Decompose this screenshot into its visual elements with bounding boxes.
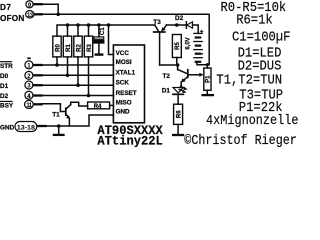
wire STR/MOSI line: [42, 64, 114, 66]
svg-text:6,0V: 6,0V: [186, 37, 192, 49]
wire BSY to T1 base: [42, 104, 66, 112]
pin 9 stub: [34, 3, 41, 5]
pin 1 stub: [34, 64, 42, 66]
wire T2 emitter to D1: [180, 82, 182, 88]
wire D0/XTAL1 line: [42, 74, 114, 76]
transistor T1: [52, 105, 70, 120]
battery minus tick: [201, 53, 204, 54]
svg-text:BSY: BSY: [0, 103, 14, 110]
ground symbol under P1: [203, 94, 213, 96]
wire D1/SCK line: [42, 84, 114, 86]
transistor T3: [153, 19, 166, 32]
wire T3 emitter / D2 cathode line: [166, 24, 186, 26]
pin label BSY with overline: [0, 101, 14, 109]
wire rail B (VCC rail): [57, 25, 155, 36]
svg-text:XTAL1: XTAL1: [116, 69, 136, 76]
pin 13 connector circle: [26, 11, 34, 19]
wire battery minus to P1 top / rail A: [197, 62, 209, 65]
node dot T2 collector: [176, 63, 180, 67]
pin label STR with overline: [0, 62, 13, 70]
pin 1 connector circle: [25, 61, 33, 70]
wire pin9 to rail A: [42, 4, 59, 14]
svg-text:MOSI: MOSI: [116, 59, 132, 66]
svg-text:GND: GND: [0, 125, 15, 132]
GND stub: [38, 125, 46, 127]
svg-text:+: +: [200, 29, 204, 36]
wire R5 bottom to node: [176, 58, 178, 66]
node dot R2 on SCK line: [76, 83, 80, 87]
pin 2 stub: [34, 74, 42, 76]
node dot R0 on MOSI line: [55, 63, 59, 67]
svg-text:T1,T2=TUN: T1,T2=TUN: [216, 73, 282, 89]
pin 3 connector circle: [25, 81, 33, 90]
pin 4 stub: [34, 94, 42, 96]
node dot R1 top: [66, 23, 70, 27]
svg-text:STR: STR: [0, 63, 13, 70]
wire T1 emitter to ground rail: [68, 118, 70, 126]
node dot P1 top: [206, 63, 209, 66]
node dot R3 top: [87, 23, 91, 27]
transistor T2: [163, 65, 188, 83]
svg-text:T1: T1: [52, 112, 60, 119]
wire T3 base down to node: [159, 32, 161, 65]
pin 11 stub: [34, 103, 41, 105]
node dot C1 top: [97, 23, 101, 27]
svg-text:13-18: 13-18: [17, 125, 36, 131]
node dot VCC drop: [107, 23, 111, 27]
svg-text:4xMignonzelle: 4xMignonzelle: [206, 113, 299, 129]
svg-text:R6: R6: [177, 110, 183, 118]
svg-text:R6=1k: R6=1k: [236, 12, 273, 28]
pin 3 stub: [34, 84, 42, 86]
svg-text:©Christof Rieger: ©Christof Rieger: [184, 133, 296, 149]
svg-text:R0: R0: [55, 44, 61, 52]
potentiometer P1: [204, 68, 212, 90]
svg-text:D1: D1: [162, 88, 171, 95]
stray mark: [27, 57, 30, 59]
ground bar under C1: [95, 53, 104, 55]
wire ground rail to IC GND pin: [46, 115, 114, 126]
wire node horizontal T3 base / T2 collector: [160, 64, 178, 66]
node dot ground symbol: [57, 124, 61, 128]
svg-text:R5: R5: [175, 42, 181, 50]
svg-text:D1: D1: [0, 83, 9, 90]
diode D1 LED: [162, 86, 188, 94]
capacitor C1: [94, 25, 106, 53]
svg-text:MISO: MISO: [116, 99, 132, 106]
svg-text:R2: R2: [76, 44, 82, 52]
svg-text:ATtiny22L: ATtiny22L: [97, 134, 163, 149]
svg-text:SCK: SCK: [116, 79, 130, 86]
ground symbol under R6: [173, 124, 183, 135]
svg-text:C1: C1: [100, 27, 106, 35]
resistor R3: [84, 25, 93, 96]
svg-text:D0: D0: [0, 73, 9, 80]
node dot R1 on XTAL1 line: [66, 74, 70, 78]
pin 11 connector circle: [25, 100, 34, 109]
wire D2 anode to battery plus: [193, 25, 199, 33]
svg-text:T2: T2: [163, 73, 171, 80]
svg-text:VCC: VCC: [116, 50, 130, 57]
svg-text:OFON: OFON: [0, 14, 24, 23]
node dot R3 on RESET line: [87, 94, 91, 98]
node junction pin9/pin13: [56, 13, 60, 17]
wire R4 to IC MISO pin: [110, 104, 114, 106]
wire P1 top: [206, 65, 208, 68]
pin 13 stub: [35, 13, 41, 15]
resistor R6: [174, 104, 183, 124]
pins 13-18 connector oval: [15, 122, 37, 132]
svg-text:GND: GND: [116, 109, 130, 116]
resistor R4: [88, 102, 110, 110]
svg-text:D2: D2: [0, 93, 9, 100]
node dot R5 top: [175, 23, 179, 27]
wire T1 collector to R4: [71, 102, 88, 106]
svg-text:P1: P1: [206, 75, 212, 83]
svg-text:R3: R3: [87, 44, 93, 52]
resistor R2: [74, 25, 83, 85]
wire VCC drop to IC VCC pin: [109, 25, 114, 55]
wire D1 to R6: [177, 94, 179, 104]
resistor R0: [53, 36, 62, 65]
pin 2 connector circle: [25, 71, 33, 80]
wire rail A (OFON/D7 line across top, down right side): [42, 14, 210, 64]
svg-text:D2: D2: [175, 15, 184, 22]
battery B1 4x cells: [194, 33, 202, 61]
diode D2: [175, 15, 193, 29]
svg-text:D7: D7: [0, 3, 11, 12]
IC U1 AT90S/ATtiny: [113, 45, 144, 123]
svg-text:C1=100µF: C1=100µF: [232, 30, 290, 46]
svg-text:R4: R4: [94, 104, 102, 110]
pin 9 connector circle: [26, 1, 33, 9]
svg-text:R1: R1: [66, 44, 72, 52]
resistor R1: [63, 25, 72, 75]
resistor R5: [172, 35, 181, 58]
wire P1 bottom: [206, 90, 208, 94]
node dot R2 top: [76, 23, 80, 27]
wire T2 base to P1 wiper with arrow: [188, 73, 203, 77]
ground symbol at T1: [54, 126, 64, 135]
wire D2/RESET line: [42, 95, 114, 97]
pin 4 connector circle: [25, 91, 33, 100]
svg-text:RESET: RESET: [116, 90, 137, 97]
